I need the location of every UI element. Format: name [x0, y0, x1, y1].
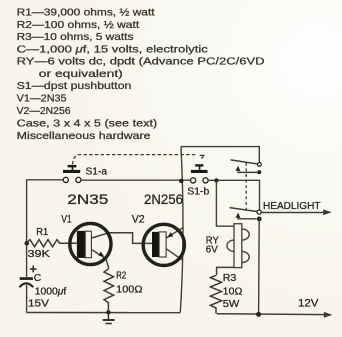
svg-text:or equivalent): or equivalent) [39, 69, 123, 80]
svg-text:10Ω: 10Ω [223, 287, 243, 298]
svg-text:C—1,000 μf, 15 volts, electrol: C—1,000 μf, 15 volts, electrolytic [17, 44, 208, 55]
svg-text:R2—100 ohms, ½ watt: R2—100 ohms, ½ watt [17, 20, 140, 31]
svg-text:S1-a: S1-a [86, 167, 108, 178]
ground [103, 312, 115, 323]
svg-text:12V: 12V [298, 297, 319, 309]
transistor V2 2N256 [143, 224, 184, 265]
capacitor C top plate [20, 277, 33, 280]
svg-text:Miscellaneous hardware: Miscellaneous hardware [17, 131, 151, 142]
wire armature RY-1 [237, 171, 257, 173]
svg-text:15V: 15V [28, 299, 49, 310]
wire coil bottom to R3 [217, 267, 234, 275]
svg-text:R1—39,000 ohms, ½ watt: R1—39,000 ohms, ½ watt [17, 8, 155, 19]
svg-text:R3—10 ohms, 5 watts: R3—10 ohms, 5 watts [17, 32, 134, 43]
coil core rectangle [234, 224, 242, 268]
svg-text:S1—dpst pushbutton: S1—dpst pushbutton [17, 81, 132, 92]
capacitor C bottom curved plate [19, 283, 33, 287]
svg-text:RY—6 volts dc, dpdt (Advance P: RY—6 volts dc, dpdt (Advance PC/2C/6VD [17, 57, 265, 68]
wire left rail lower [26, 285, 28, 312]
relay contact RY-1 armature arrow [236, 166, 241, 171]
wire bottom right 12V line [217, 313, 325, 316]
relay contact RY-2 fixed point [257, 210, 261, 214]
wire S1-b junction down to coil [216, 181, 234, 226]
transistor V1 2N35 [70, 223, 153, 268]
wire S1-b to corner down to relay contact 2 [208, 180, 260, 210]
svg-text:S1-b: S1-b [187, 187, 209, 198]
svg-text:5W: 5W [223, 299, 240, 310]
wire bottom left [26, 312, 180, 314]
node RY-2 armature [257, 217, 262, 222]
wire top left to S1-a [26, 179, 63, 181]
resistor R1 [27, 240, 70, 247]
V1 emitter arrow [99, 252, 105, 257]
wire armature RY-2 [237, 218, 256, 220]
wire S1-a to S1-b [81, 179, 191, 181]
V2 emitter lead [166, 227, 183, 238]
arrow 12V [324, 312, 333, 318]
relay coil RY [216, 181, 249, 275]
V1 base lead [70, 242, 77, 244]
node 12V line junction [256, 312, 261, 317]
svg-text:R3: R3 [223, 273, 237, 284]
svg-text:6V: 6V [206, 245, 218, 256]
wire headlight line [261, 212, 324, 214]
dashed relay actuation link [245, 163, 247, 210]
V2 circle [143, 224, 184, 265]
resistor R3 [210, 275, 221, 313]
V2 base bar dark [152, 232, 159, 257]
V2 collector lead [166, 249, 183, 261]
V1 circle [70, 223, 111, 264]
wire upper right horizontal [181, 147, 259, 163]
parts list text [17, 8, 265, 142]
relay contact RY-1 blade [231, 160, 258, 164]
V2 base bar light [159, 232, 166, 257]
svg-text:39K: 39K [28, 249, 51, 260]
pushbutton S1-b [191, 155, 209, 183]
capacitor C plus sign [30, 266, 37, 273]
wire right rail (V2 emitter/collector rail) [180, 147, 183, 313]
V1 base bar dark [77, 231, 85, 258]
node R1 junction on left rail [25, 241, 30, 246]
pushbutton S1-a [63, 165, 81, 183]
V1 emitter lead [92, 250, 109, 269]
relay contact RY-2 armature arrow [236, 213, 241, 218]
node R2 bottom junction [106, 310, 110, 314]
coil winding arcs [242, 229, 249, 240]
relay contact RY-2 blade [230, 208, 257, 212]
svg-text:R1: R1 [36, 227, 48, 238]
svg-text:V2—2N256: V2—2N256 [17, 106, 71, 117]
svg-text:V1: V1 [61, 213, 71, 225]
svg-text:2N256: 2N256 [144, 191, 183, 207]
wire RY-2 armature down to 12V line [258, 219, 261, 314]
V1 collector lead to V2 base [92, 233, 153, 244]
dashed mechanical link S1-a to S1-b [73, 155, 198, 165]
svg-text:V2: V2 [132, 214, 145, 226]
node junction relay coil tap [214, 178, 218, 182]
arrow headlight [323, 209, 331, 215]
svg-text:2N35: 2N35 [67, 191, 108, 207]
svg-text:HEADLIGHT: HEADLIGHT [263, 201, 321, 212]
svg-text:Case, 3 x 4 x 5 (see text): Case, 3 x 4 x 5 (see text) [17, 119, 158, 130]
svg-text:R2: R2 [116, 271, 126, 282]
resistor R2 [104, 269, 114, 313]
svg-text:100Ω: 100Ω [116, 284, 143, 295]
node junction top of right rail [179, 179, 183, 183]
svg-text:1000μf: 1000μf [35, 286, 67, 297]
svg-text:V1—2N35: V1—2N35 [17, 94, 67, 105]
node RY-1 armature [257, 170, 261, 174]
relay contact RY-1 fixed point [258, 163, 262, 167]
wire left rail upper [26, 180, 28, 277]
V2 emitter arrow [167, 232, 173, 237]
svg-text:C: C [34, 273, 42, 284]
V1 base bar light [85, 231, 91, 258]
